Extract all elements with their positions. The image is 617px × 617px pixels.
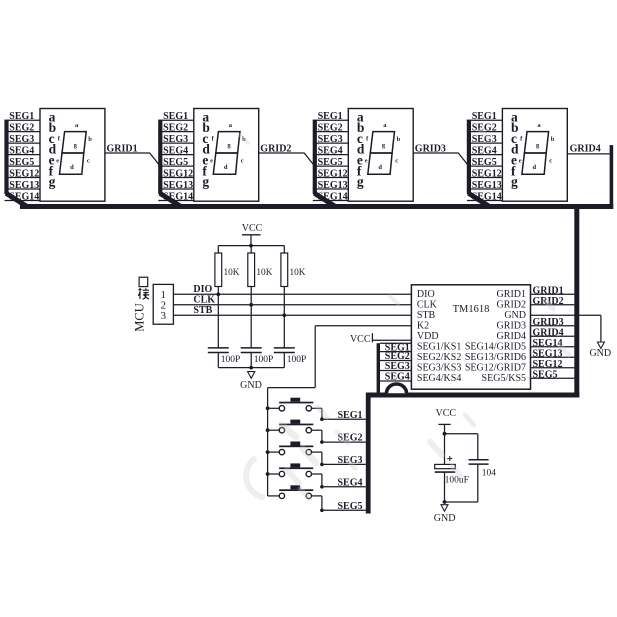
svg-text:c: c [395, 157, 398, 164]
svg-text:SEG12: SEG12 [9, 168, 39, 179]
svg-text:SEG1: SEG1 [472, 111, 497, 122]
svg-text:b: b [397, 136, 401, 143]
svg-text:SEG2/KS2: SEG2/KS2 [417, 352, 461, 363]
svg-text:SEG3: SEG3 [163, 134, 188, 145]
svg-text:SEG4: SEG4 [338, 477, 363, 488]
svg-text:VCC: VCC [436, 408, 457, 419]
svg-text:DIO: DIO [417, 289, 435, 300]
svg-text:10K: 10K [256, 268, 272, 278]
svg-text:TM1618: TM1618 [453, 304, 490, 315]
svg-text:3: 3 [161, 310, 167, 322]
svg-text:GRID3: GRID3 [533, 317, 564, 328]
svg-text:SEG4/KS4: SEG4/KS4 [417, 373, 461, 384]
svg-text:SEG13/GRID6: SEG13/GRID6 [465, 352, 526, 363]
svg-text:SEG3/KS3: SEG3/KS3 [417, 362, 461, 373]
svg-text:SEG4: SEG4 [472, 145, 497, 156]
svg-text:10K: 10K [224, 268, 240, 278]
svg-text:SEG12: SEG12 [163, 168, 193, 179]
svg-text:SEG13: SEG13 [163, 180, 193, 191]
svg-text:MCU: MCU [133, 303, 147, 331]
svg-text:GRID1: GRID1 [533, 285, 564, 296]
svg-text:SEG3: SEG3 [318, 134, 343, 145]
svg-text:e: e [56, 158, 59, 165]
svg-text:100P: 100P [221, 355, 241, 365]
svg-text:c: c [241, 157, 244, 164]
svg-text:d: d [378, 164, 382, 171]
svg-text:SEG13: SEG13 [318, 180, 348, 191]
svg-text:CLK: CLK [417, 299, 438, 310]
svg-text:GRID3: GRID3 [497, 320, 526, 331]
svg-text:SEG3: SEG3 [385, 361, 410, 372]
svg-text:GRID2: GRID2 [497, 299, 526, 310]
svg-text:STB: STB [193, 305, 212, 316]
svg-text:c: c [87, 157, 90, 164]
svg-text:SEG1: SEG1 [9, 111, 34, 122]
svg-text:e: e [519, 158, 522, 165]
svg-text:SEG1: SEG1 [318, 111, 343, 122]
svg-text:SEG1: SEG1 [338, 410, 363, 421]
svg-text:GRID4: GRID4 [570, 143, 601, 154]
svg-text:VCC: VCC [242, 223, 263, 234]
svg-text:100uF: 100uF [445, 476, 469, 486]
svg-text:100P: 100P [287, 355, 307, 365]
svg-text:c: c [549, 157, 552, 164]
svg-text:CLK: CLK [193, 295, 215, 306]
svg-text:d: d [70, 164, 74, 171]
svg-text:SEG13: SEG13 [9, 180, 39, 191]
svg-text:SEG5: SEG5 [163, 157, 188, 168]
svg-text:e: e [365, 158, 368, 165]
svg-text:SEG12: SEG12 [318, 168, 348, 179]
svg-text:SEG13: SEG13 [472, 180, 502, 191]
svg-text:SEG4: SEG4 [318, 145, 343, 156]
svg-text:SEG5: SEG5 [533, 369, 558, 380]
svg-text:SEG1/KS1: SEG1/KS1 [417, 341, 461, 352]
svg-text:d: d [224, 164, 228, 171]
svg-text:K2: K2 [417, 320, 429, 331]
svg-text:SEG2: SEG2 [163, 122, 188, 133]
svg-text:e: e [210, 158, 213, 165]
svg-text:g: g [49, 174, 56, 189]
svg-text:GND: GND [589, 348, 611, 359]
svg-text:g: g [357, 174, 364, 189]
svg-text:SEG5: SEG5 [472, 157, 497, 168]
svg-text:b: b [551, 136, 555, 143]
svg-text:DIO: DIO [193, 284, 212, 295]
svg-text:GND: GND [504, 310, 526, 321]
svg-text:SEG13: SEG13 [533, 348, 563, 359]
svg-text:SEG5: SEG5 [9, 157, 34, 168]
svg-text:SEG5/KS5: SEG5/KS5 [482, 373, 526, 384]
svg-text:SEG14/GRID5: SEG14/GRID5 [465, 341, 526, 352]
svg-text:100P: 100P [254, 355, 274, 365]
svg-text:SEG2: SEG2 [318, 122, 343, 133]
svg-text:SEG4: SEG4 [163, 145, 188, 156]
svg-text:SEG1: SEG1 [163, 111, 188, 122]
svg-text:SEG4: SEG4 [9, 145, 34, 156]
svg-text:SEG14: SEG14 [533, 338, 563, 349]
svg-text:GRID4: GRID4 [533, 327, 564, 338]
svg-text:GRID4: GRID4 [497, 331, 526, 342]
svg-text:VDD: VDD [417, 331, 439, 342]
svg-text:SEG5: SEG5 [338, 501, 363, 512]
svg-text:SEG3: SEG3 [9, 134, 34, 145]
svg-text:SEG5: SEG5 [318, 157, 343, 168]
svg-text:STB: STB [417, 310, 436, 321]
svg-text:104: 104 [482, 468, 497, 478]
svg-text:SEG2: SEG2 [9, 122, 34, 133]
svg-text:b: b [88, 136, 92, 143]
svg-text:GND: GND [240, 380, 262, 391]
svg-text:SEG12/GRID7: SEG12/GRID7 [465, 362, 526, 373]
svg-text:d: d [533, 164, 537, 171]
svg-text:SEG12: SEG12 [472, 168, 502, 179]
svg-text:SEG12: SEG12 [533, 359, 563, 370]
svg-text:VCC: VCC [350, 334, 371, 345]
svg-text:GRID1: GRID1 [497, 289, 526, 300]
svg-text:g: g [202, 174, 209, 189]
svg-text:GND: GND [434, 513, 456, 524]
svg-text:SEG4: SEG4 [385, 372, 410, 383]
svg-text:10K: 10K [290, 268, 306, 278]
svg-text:g: g [511, 174, 518, 189]
